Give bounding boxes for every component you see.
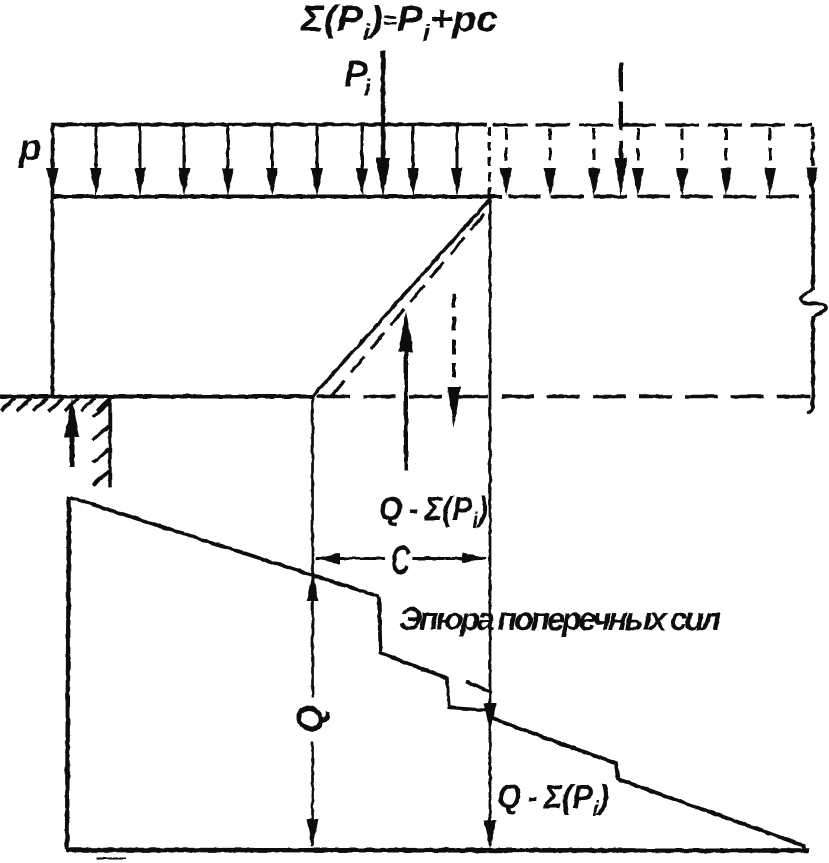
reaction arrow up at support bbox=[65, 398, 80, 467]
shear diagram right branch bbox=[491, 718, 805, 852]
beam top line dashed bbox=[508, 195, 813, 199]
right edge dashed upper bbox=[811, 127, 814, 196]
shear diagram small step bbox=[447, 677, 490, 711]
distributed load top line solid bbox=[51, 123, 487, 127]
svg-text:Pi: Pi bbox=[344, 53, 372, 102]
support vertical hatching bbox=[93, 403, 109, 485]
right edge solid with break symbol bbox=[801, 194, 826, 413]
svg-text:Q - Σ(Pi): Q - Σ(Pi) bbox=[379, 490, 488, 533]
shear diagram short continuation to section bbox=[466, 682, 492, 694]
section vertical line (solid, full height) bbox=[489, 198, 492, 845]
dashed arrow down pc resultant bbox=[448, 294, 461, 428]
label Q-Sum(Pi) lower bbox=[497, 778, 609, 821]
shear diagram step at Pi bbox=[379, 596, 447, 678]
arrowhead down on section line at baseline bbox=[484, 820, 497, 849]
shear diagram left edge bbox=[67, 497, 69, 849]
diagonal section cut line dashed bbox=[331, 208, 489, 397]
small tick below baseline bbox=[96, 858, 126, 860]
shear diagram baseline bbox=[66, 848, 809, 853]
shear diagram top slope bbox=[71, 498, 379, 597]
ground line solid (support surface) bbox=[0, 395, 314, 399]
support vertical edge bbox=[108, 396, 111, 488]
dimension arrowhead down (Q) bbox=[307, 819, 319, 848]
concentrated force arrow Pi bbox=[376, 51, 390, 197]
diagonal section cut line solid bbox=[313, 199, 490, 396]
label Q-Sum(Pi) upper bbox=[379, 490, 488, 533]
distributed load arrows solid bbox=[47, 126, 464, 196]
dimension vertical line at step (x=312) bbox=[311, 398, 314, 846]
arrowhead down on section line at shear jump bbox=[484, 703, 497, 731]
svg-text:C: C bbox=[391, 537, 410, 584]
distributed load top line dashed bbox=[493, 123, 812, 126]
ground line dashed continuation bbox=[317, 395, 812, 398]
ground hatching below line bbox=[1, 398, 111, 411]
beam left edge bbox=[51, 123, 55, 396]
section vertical line dashed (above beam) bbox=[488, 127, 491, 195]
label p (distributed load) bbox=[18, 127, 42, 168]
svg-text:Q: Q bbox=[290, 705, 331, 733]
dashed concentrated force arrow (alternate Pi position) bbox=[615, 63, 628, 196]
svg-text:Q - Σ(Pi): Q - Σ(Pi) bbox=[497, 778, 609, 821]
svg-text:p: p bbox=[18, 127, 42, 168]
distributed load arrows dashed bbox=[500, 128, 818, 196]
arrow up Q-Sum(Pi) bbox=[399, 311, 414, 471]
beam top line solid bbox=[51, 195, 502, 199]
svg-text:Эпюра поперечных сил: Эпюра поперечных сил bbox=[399, 601, 721, 637]
svg-text:Σ(Pi)=Pi+pc: Σ(Pi)=Pi+pc bbox=[300, 0, 498, 46]
label Pi bbox=[344, 53, 372, 102]
dimension line C with arrows bbox=[314, 553, 488, 565]
dimension arrowhead up (Q) bbox=[307, 571, 319, 601]
formula label Sum(Pi)=Pi+pc bbox=[300, 0, 498, 46]
